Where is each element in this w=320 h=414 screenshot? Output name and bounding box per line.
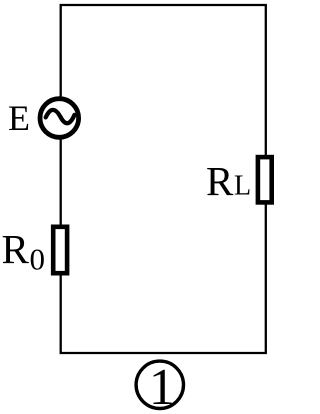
resistor R0	[53, 227, 67, 273]
svg-text:E: E	[8, 98, 30, 138]
svg-text:0: 0	[30, 241, 46, 276]
resistor RL	[258, 157, 272, 202]
ac source E: circle body	[40, 99, 79, 138]
svg-text:1: 1	[149, 359, 175, 414]
svg-text:R: R	[2, 226, 30, 272]
ac source E: sine wave	[46, 110, 75, 123]
svg-text:L: L	[234, 170, 251, 201]
svg-text:R: R	[206, 158, 234, 204]
wire: main circuit loop	[61, 5, 266, 353]
figure number circle	[136, 361, 183, 408]
